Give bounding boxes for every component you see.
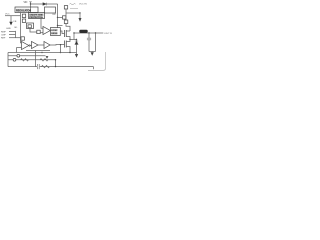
vertical join left — [35, 53, 37, 67]
node mid dot — [55, 59, 56, 60]
transistor Q2 channel — [65, 41, 67, 48]
inductor L1 — [79, 30, 87, 33]
svg-text:RMP: RMP — [1, 31, 6, 33]
wire ground bus W1 — [8, 52, 77, 54]
comparator U1 — [22, 42, 29, 50]
transistor Q1 gate bar — [64, 30, 66, 37]
current source I2 circle — [13, 58, 16, 61]
resistor R3 zigzag — [21, 59, 29, 61]
box C logic — [51, 28, 61, 36]
box A regulator — [15, 7, 38, 13]
rail VOUT — [74, 32, 103, 34]
wire branch down — [60, 45, 62, 53]
resistor R5 zigzag — [42, 65, 50, 67]
pin square EN — [22, 14, 25, 17]
box B timer — [29, 13, 45, 19]
wire SW — [70, 39, 77, 41]
wire pin CMP stub — [9, 37, 21, 39]
ground arrow output — [91, 52, 94, 56]
svg-text:VIN: VIN — [24, 2, 28, 4]
wire left bus — [20, 13, 22, 44]
wire bottom stub — [93, 67, 95, 70]
current source I1 wire — [8, 55, 46, 57]
svg-text:VCC: VCC — [5, 14, 10, 16]
wire rail corner to SW — [73, 33, 75, 40]
transistor Q1 channel — [65, 30, 67, 37]
svg-text:CMP: CMP — [1, 34, 6, 36]
node SW dot — [69, 39, 70, 40]
wire gnd drop — [10, 16, 12, 22]
wire bottom rail — [8, 66, 94, 68]
capacitor C2 plates — [87, 38, 91, 40]
wire gnd stub output — [91, 51, 93, 54]
wire under gates — [26, 50, 50, 52]
wire drain link — [58, 25, 63, 27]
svg-text:FB: FB — [14, 21, 17, 23]
current source I1 circle — [17, 54, 20, 57]
svg-text:SD: SD — [14, 27, 17, 29]
transistor Q1 source stub — [66, 37, 70, 40]
wire VCC rail — [66, 12, 80, 14]
wire pin SS stub — [9, 34, 16, 36]
wire gnd stub — [5, 15, 21, 17]
svg-text:PROTECTION: PROTECTION — [29, 17, 43, 19]
transistor Q2 drain stub — [66, 40, 70, 42]
box F driver — [45, 7, 56, 13]
wire U1 input2 — [17, 47, 22, 49]
wire VCC pin down — [65, 9, 67, 13]
pin square RT — [21, 37, 24, 40]
op-amp U2 — [43, 27, 50, 35]
transistor Q1 drain stub — [66, 30, 70, 32]
gate G2 — [44, 42, 50, 49]
node rail-SW junction — [73, 32, 74, 33]
capacitor C3 plates — [37, 64, 39, 69]
box E bias network left edge — [7, 53, 9, 67]
wire U1 input1 — [21, 42, 22, 44]
svg-text:DRIVE: DRIVE — [51, 33, 58, 35]
box D bandgap — [27, 23, 34, 29]
pin square VIN — [64, 20, 68, 24]
node VIN junction — [30, 3, 31, 4]
wire input2 drop — [16, 48, 18, 53]
node rail dot — [79, 12, 80, 13]
ground arrow right of rail — [79, 18, 82, 22]
diode D1 — [43, 3, 47, 6]
svg-text:REF: REF — [1, 37, 6, 39]
capacitor C2 top lead — [88, 33, 90, 38]
wire VIN vertical — [30, 2, 32, 13]
wire diode to gnd — [76, 48, 78, 54]
vertical join right — [55, 60, 57, 67]
transistor Q2 source stub — [66, 47, 70, 53]
resistor R4 zigzag — [40, 59, 48, 61]
label underline tick — [70, 8, 78, 10]
node rail dot C2 — [88, 32, 89, 33]
transistor Q2 gate bar — [64, 41, 66, 48]
pin square BST — [63, 16, 66, 19]
wire bus right — [57, 4, 59, 28]
capacitor C2 bottom lead — [88, 40, 90, 52]
svg-text:BST: BST — [53, 14, 58, 16]
node W1 Q2 dot — [69, 52, 70, 53]
diode D2 vertical — [76, 40, 78, 49]
wire box C to gate1 — [60, 31, 64, 34]
wire U1 out — [30, 45, 31, 47]
capacitor C1 lead — [79, 13, 81, 18]
wire pin stub right — [58, 16, 63, 18]
node bottom dot — [55, 66, 56, 67]
node W1 dot mid — [41, 52, 42, 53]
wire top rail to driver — [31, 3, 58, 5]
wire box D down — [30, 29, 37, 33]
arrow end of I1 wire — [46, 56, 49, 59]
svg-text:VOUT 5V: VOUT 5V — [104, 33, 113, 35]
wire U2 lower input — [40, 32, 43, 34]
wire VIN pin drop — [65, 13, 67, 20]
frame bottom right — [88, 52, 106, 70]
pin square FB — [22, 19, 25, 22]
resistor Rload lead — [95, 33, 97, 52]
wire U2 upper input — [41, 19, 43, 29]
svg-text:GND: GND — [6, 28, 11, 30]
node rail dot R2 — [95, 32, 96, 33]
wire pin RT stub — [9, 31, 16, 33]
capacitor C3 gap mask — [37, 66, 39, 68]
pin square CS — [37, 30, 40, 33]
wire cap join — [89, 51, 96, 53]
comparator U1 bubble — [29, 45, 30, 46]
node G2 branch dot — [60, 44, 61, 45]
VIN terminal tick — [29, 1, 31, 3]
wire pin join vertical — [15, 31, 17, 38]
wire G1 to G2 — [38, 44, 44, 46]
ground arrow center — [75, 54, 78, 58]
label VCC squiggle — [70, 3, 76, 4]
node bus dot — [57, 17, 58, 18]
wire G2 out to Q2 gate — [50, 44, 65, 47]
pin square VCC — [64, 6, 67, 9]
current source I2 wire — [8, 59, 56, 61]
node bus dot2 — [57, 25, 58, 26]
gate G1 — [32, 42, 39, 49]
diode D2 symbol — [75, 41, 78, 45]
wire drop to ground bus — [35, 51, 37, 53]
ground arrow left — [9, 22, 12, 26]
wire VIN pin to drain — [66, 24, 70, 32]
svg-text:VCC 5V: VCC 5V — [79, 4, 87, 6]
